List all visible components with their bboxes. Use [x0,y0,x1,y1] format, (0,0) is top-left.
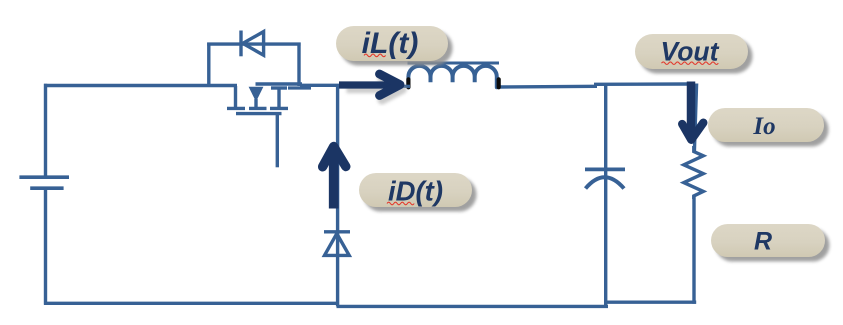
wire left vertical top [44,84,47,176]
svg-text:iL(t): iL(t) [362,27,419,60]
svg-text:R: R [754,228,772,256]
label pill Io [708,108,829,147]
wire mosfet top bar [256,82,303,85]
wire load branch lower [692,196,695,304]
spellcheck squiggle under iL [364,54,386,57]
wire mosfet to node [288,86,311,89]
current arrow iL [339,74,400,96]
battery V1 [19,177,69,188]
wire left vertical bottom [44,188,47,305]
wire bottom rail middle [337,305,609,308]
resistor R1 zigzag [684,146,704,199]
wire load branch upper [694,84,696,152]
diode D1 (antiparallel, pointing left) [241,31,264,57]
inductor L1 left terminal [406,79,410,87]
wire node segment [300,84,347,87]
wire diode branch vertical [336,85,339,306]
label pill R [711,224,830,262]
current arrow iL shadow [347,79,403,101]
transistor Q1 body arrow [249,87,264,102]
wire capacitor branch vertical [604,85,607,307]
inductor L1 coils [408,66,496,87]
svg-text:Io: Io [752,113,775,140]
capacitor C1 curved plate [586,177,625,188]
diode D2 (freewheel, pointing up) [324,232,350,256]
spellcheck squiggle under iD [387,202,414,205]
wire top right horizontal a [499,85,597,89]
diode D1 bypass loop wires [207,43,300,87]
inductor L1 top bar [408,62,500,65]
wire top left horizontal [44,84,237,87]
label pill iD(t) [359,173,477,212]
inductor L1 right terminal [497,79,501,87]
wire bottom rail left [44,302,339,305]
wire top right horizontal b [594,82,690,86]
capacitor C1 top plate [585,168,625,172]
wire bottom rail right [604,301,696,304]
wire under iL arrow [396,85,410,88]
label pill iL(t) [336,26,453,66]
label pill Vout [635,34,753,74]
current arrow iD [323,147,346,209]
spellcheck squiggle under Vout [662,62,719,65]
transistor Q1 (MOSFET) [227,86,288,167]
current arrow Io/Vout [682,82,703,140]
